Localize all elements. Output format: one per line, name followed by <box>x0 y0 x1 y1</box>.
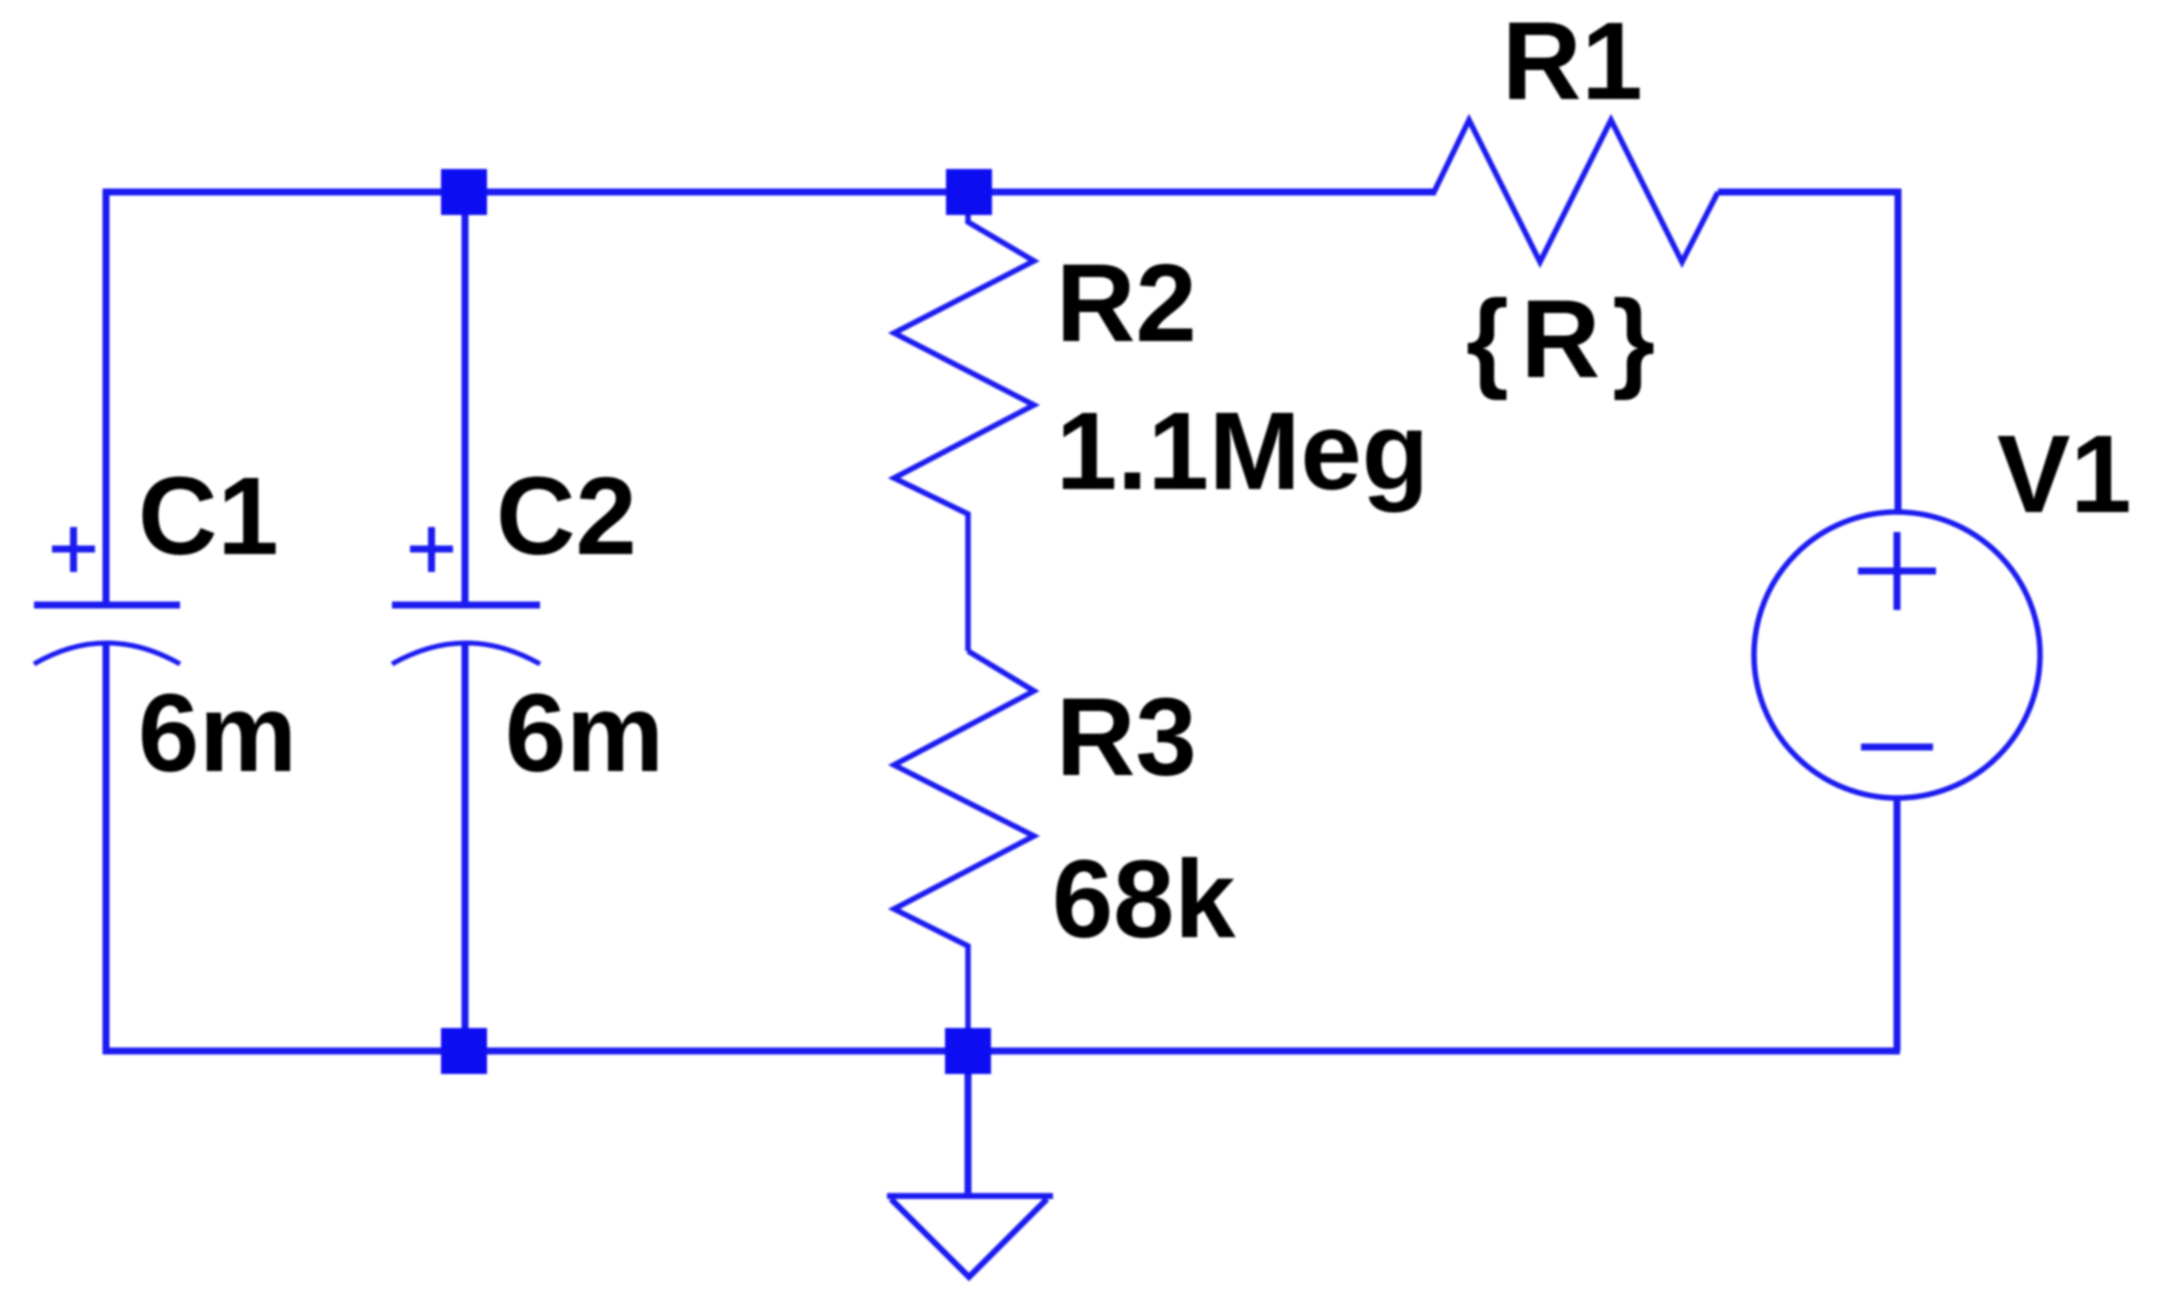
svg-text:6m: 6m <box>138 672 297 795</box>
wire R1 to V1 top <box>1718 192 1898 513</box>
svg-text:1.1Meg: 1.1Meg <box>1056 390 1429 513</box>
svg-text:R1: R1 <box>1502 0 1643 123</box>
voltage source V1 <box>1754 512 2040 798</box>
wire left vertical lower (C1 to bottom net) <box>103 641 110 1054</box>
node junction bottom-mid <box>945 1028 991 1074</box>
resistor R2 <box>894 192 1034 651</box>
svg-text:R3: R3 <box>1056 676 1197 799</box>
svg-text:C2: C2 <box>496 455 637 578</box>
capacitor C1 <box>34 527 180 664</box>
wire C2 vertical lower <box>462 641 469 1051</box>
node junction bottom-left <box>441 1028 487 1074</box>
wire left vertical upper (to C1 top plate) <box>103 189 110 605</box>
svg-text:R2: R2 <box>1056 242 1197 365</box>
wire ground stub <box>965 1051 972 1196</box>
svg-text:68k: 68k <box>1052 838 1236 961</box>
node junction top-mid <box>946 169 992 215</box>
wire C2 vertical upper <box>462 192 469 605</box>
wire bottom net <box>103 1048 1900 1055</box>
svg-text:{R}: {R} <box>1466 278 1667 401</box>
resistor R3 <box>894 651 1034 1051</box>
resistor R1 <box>1434 120 1718 262</box>
svg-text:C1: C1 <box>138 455 279 578</box>
wire V1 bottom to bottom net <box>1894 797 1901 1051</box>
ground <box>887 1196 1053 1277</box>
svg-text:V1: V1 <box>1997 413 2132 536</box>
capacitor C2 <box>392 527 540 664</box>
node junction top-left <box>441 169 487 215</box>
wire top net from top-left corner to R1 <box>103 189 1436 196</box>
svg-text:6m: 6m <box>505 672 664 795</box>
